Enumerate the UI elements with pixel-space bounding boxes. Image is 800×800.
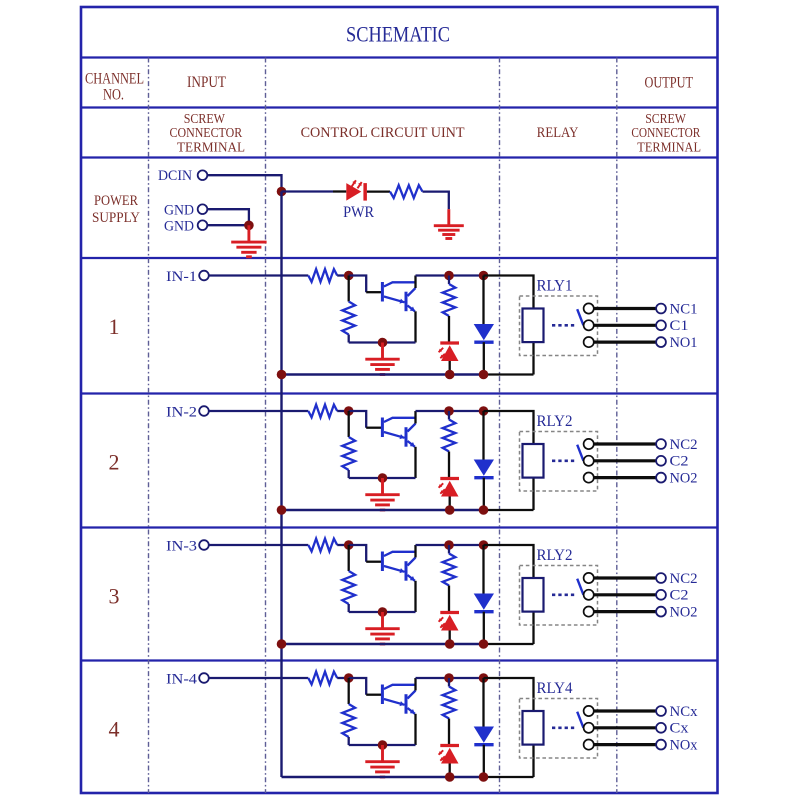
wire resistor to node [337, 410, 349, 412]
terminal GND 1 [198, 204, 208, 214]
table outer border [81, 7, 718, 793]
wire collector rail ch2 [416, 410, 484, 412]
coupling dotted line RLY1 [552, 324, 577, 327]
terminal NC2 [656, 439, 666, 449]
svg-text:OUTPUT: OUTPUT [645, 75, 694, 92]
terminal NCx [656, 706, 666, 716]
terminal Cx [656, 723, 666, 733]
svg-text:NC2: NC2 [670, 437, 698, 453]
node emitter ground ch4 [378, 740, 388, 750]
wire contact to terminal NO1 [594, 341, 657, 344]
svg-text:GND: GND [164, 218, 194, 234]
terminal NO2 [656, 607, 666, 617]
wire GND2 to junction [207, 224, 249, 226]
relay coil RLY2 [523, 578, 544, 612]
switch lever RLY2 [577, 445, 583, 461]
wire junction to LED PWR [282, 190, 334, 192]
svg-text:SCREW: SCREW [184, 111, 226, 126]
wire LED to bottom rail ch4 [449, 764, 451, 778]
wire IN-3 to resistor [209, 544, 308, 546]
node diode branch bottom ch1 [479, 370, 489, 380]
node base node ch1 [344, 271, 354, 281]
switch lever RLY2 [577, 579, 583, 595]
svg-text:Cx: Cx [670, 721, 690, 737]
wire contact to terminal NOx [594, 743, 657, 746]
resistor R4a (input series) [308, 672, 337, 685]
table row lines [81, 56, 718, 58]
svg-text:NO.: NO. [103, 87, 124, 104]
wire collector rail ch4 [416, 677, 484, 679]
wire contact to terminal NO2 [594, 610, 657, 613]
node base node ch4 [344, 673, 354, 683]
svg-text:SCHEMATIC: SCHEMATIC [346, 22, 450, 47]
wire IN-4 to resistor [209, 677, 308, 679]
wire collector stub ch2 [414, 411, 416, 424]
wire resistor to node [337, 274, 349, 276]
node emitter ground ch2 [378, 473, 388, 483]
wire emitter rail ch3 [349, 611, 416, 613]
wire contact to terminal C2 [594, 593, 657, 596]
svg-text:CONTROL CIRCUIT UINT: CONTROL CIRCUIT UINT [301, 125, 465, 141]
wire contact to terminal NC2 [594, 442, 657, 445]
node diode branch bottom ch4 [479, 772, 489, 782]
wire contact to terminal NC2 [594, 576, 657, 579]
node power rail tap ch1 [277, 370, 287, 380]
node LED branch top ch2 [444, 406, 454, 416]
wire rail to relay coil top ch3 [484, 545, 534, 578]
resistor R2b (base pulldown) [348, 411, 350, 437]
relay RLY2 dashed box [520, 566, 598, 626]
wire collector stub ch3 [414, 545, 416, 558]
wire DCIN to power rail [207, 175, 281, 191]
switch lever RLY4 [577, 712, 583, 728]
LED D2a indicator (red, pointing up) [440, 477, 459, 480]
resistor R3a (input series) [308, 539, 337, 552]
wire base drive ch2 [349, 411, 367, 428]
wire bottom power rail ch3 [282, 643, 484, 645]
terminal C2 [656, 590, 666, 600]
contact NO pin ch2 [584, 473, 594, 483]
wire emitter stub ch2 [414, 447, 416, 478]
wire bottom power rail ch2 [282, 509, 484, 511]
svg-text:INPUT: INPUT [187, 74, 226, 91]
relay RLY4 dashed box [520, 699, 598, 759]
wire contact to terminal NC1 [594, 307, 657, 310]
wire relay coil bottom to rail ch3 [532, 612, 534, 645]
LED D3a indicator (red, pointing up) [440, 611, 459, 614]
ground (channel 3) [365, 612, 399, 644]
wire base drive ch1 [349, 276, 367, 293]
contact NC pin ch1 [584, 303, 594, 313]
wire LED to bottom rail ch2 [449, 497, 451, 511]
diode D1b flyback (blue, pointing down) [482, 276, 484, 325]
resistor R2c (LED series, vertical) [448, 411, 450, 420]
resistor (power row, horizontal) [390, 185, 423, 198]
svg-text:TERMINAL: TERMINAL [177, 139, 245, 154]
terminal C2 [656, 456, 666, 466]
wire collector stub ch4 [414, 678, 416, 691]
wire contact to terminal Cx [594, 726, 657, 729]
svg-text:IN-4: IN-4 [166, 671, 198, 687]
terminal NO1 [656, 337, 666, 347]
contact NC pin ch3 [584, 573, 594, 583]
resistor R1a (input series) [308, 269, 337, 282]
wire emitter stub ch1 [414, 311, 416, 342]
contact C pin ch4 [584, 723, 594, 733]
diode D4b flyback (blue, pointing down) [482, 678, 484, 727]
contact NC pin ch2 [584, 439, 594, 449]
node diode branch top ch3 [479, 540, 489, 550]
ground (channel 1) [365, 343, 399, 375]
node power rail tap ch3 [277, 639, 287, 649]
wire contact to terminal NO2 [594, 476, 657, 479]
wire bottom power rail ch1 [282, 373, 484, 375]
node LED branch bottom ch1 [445, 370, 455, 380]
transistor Q4 (darlington pair) [382, 685, 415, 714]
contact NC pin ch4 [584, 706, 594, 716]
svg-text:RELAY: RELAY [537, 125, 579, 141]
wire GND1 to junction [207, 209, 249, 225]
node LED branch top ch1 [444, 271, 454, 281]
node LED branch top ch3 [444, 540, 454, 550]
relay coil RLY2 [523, 444, 544, 478]
LED PWR (red, pointing right) [346, 183, 361, 201]
svg-text:NO2: NO2 [670, 470, 698, 486]
resistor R1c (LED series, vertical) [448, 276, 450, 285]
contact C pin ch3 [584, 590, 594, 600]
wire base drive ch3 [349, 545, 367, 562]
svg-text:SCREW: SCREW [645, 111, 686, 126]
terminal IN-4 [199, 673, 209, 683]
svg-text:NC1: NC1 [670, 301, 698, 317]
diode D3b flyback (blue, pointing down) [482, 545, 484, 594]
svg-text:1: 1 [109, 314, 120, 339]
terminal IN-1 [199, 271, 209, 281]
ground (power LED return) [434, 209, 464, 238]
node power rail tap ch2 [277, 505, 287, 515]
wire LED to resistor [367, 190, 390, 192]
wire contact to terminal NCx [594, 709, 657, 712]
node LED branch top ch4 [444, 673, 454, 683]
wire resistor to node [337, 544, 349, 546]
LED D4a indicator (red, pointing up) [440, 744, 459, 747]
svg-text:RLY2: RLY2 [537, 547, 573, 564]
contact C pin ch1 [584, 320, 594, 330]
svg-text:NO2: NO2 [670, 604, 698, 620]
wire base drive ch4 [349, 678, 367, 695]
relay RLY1 dashed box [520, 296, 598, 356]
wire relay coil bottom to rail ch4 [532, 745, 534, 778]
resistor R3c (LED series, vertical) [448, 545, 450, 554]
svg-text:CONNECTOR: CONNECTOR [631, 125, 700, 140]
svg-text:C1: C1 [670, 318, 689, 334]
ground (channel 2) [365, 478, 399, 510]
resistor R2a (input series) [308, 405, 337, 418]
svg-text:3: 3 [109, 584, 120, 609]
node GND junction [244, 221, 254, 231]
svg-text:PWR: PWR [343, 204, 375, 221]
node diode branch top ch2 [479, 406, 489, 416]
terminal C1 [656, 320, 666, 330]
wire resistor to ground [423, 192, 449, 210]
wire rail to relay coil top ch1 [484, 276, 534, 309]
resistor R3b (base pulldown) [348, 545, 350, 571]
wire relay coil bottom to rail ch2 [532, 478, 534, 511]
svg-text:TERMINAL: TERMINAL [637, 139, 701, 154]
svg-text:IN-2: IN-2 [166, 404, 197, 420]
LED D1a indicator (red, pointing up) [440, 341, 459, 344]
wire LED to bottom rail ch1 [449, 361, 451, 375]
contact NO pin ch1 [584, 337, 594, 347]
terminal IN-2 [199, 406, 209, 416]
wire emitter stub ch3 [414, 581, 416, 612]
transistor Q2 (darlington pair) [382, 418, 415, 447]
resistor R4b (base pulldown) [348, 678, 350, 704]
wire emitter rail ch4 [349, 744, 416, 746]
svg-text:IN-1: IN-1 [166, 269, 197, 285]
wire IN-1 to resistor [209, 274, 308, 276]
terminal GND 2 [198, 220, 208, 230]
node base node ch2 [344, 406, 354, 416]
wire resistor to node [337, 677, 349, 679]
terminal NC2 [656, 573, 666, 583]
resistor R1b (base pulldown) [348, 276, 350, 302]
wire emitter stub ch4 [414, 714, 416, 745]
svg-text:C2: C2 [670, 588, 689, 604]
svg-text:2: 2 [109, 450, 120, 475]
node LED branch bottom ch3 [445, 639, 455, 649]
svg-text:IN-3: IN-3 [166, 538, 197, 554]
transistor Q1 (darlington pair) [382, 282, 415, 311]
node emitter ground ch3 [378, 607, 388, 617]
wire emitter rail ch2 [349, 477, 416, 479]
relay coil RLY4 [523, 711, 544, 745]
node diode branch bottom ch2 [479, 505, 489, 515]
svg-text:RLY4: RLY4 [537, 680, 573, 697]
svg-text:NC2: NC2 [670, 571, 698, 587]
wire collector rail ch3 [416, 544, 484, 546]
wire power rail (vertical DCIN bus) [280, 192, 282, 778]
node base node ch3 [344, 540, 354, 550]
wire LED to bottom rail ch3 [449, 631, 451, 645]
ground (channel 4) [365, 745, 399, 777]
contact NO pin ch4 [584, 740, 594, 750]
node LED branch bottom ch2 [445, 505, 455, 515]
terminal DCIN [198, 170, 208, 180]
wire rail to relay coil top ch4 [484, 678, 534, 711]
diode D2b flyback (blue, pointing down) [482, 411, 484, 460]
svg-text:CONNECTOR: CONNECTOR [170, 125, 243, 140]
transistor Q3 (darlington pair) [382, 552, 415, 581]
node power junction [277, 187, 287, 197]
svg-text:C2: C2 [670, 454, 689, 470]
svg-text:POWER: POWER [94, 193, 138, 209]
wire contact to terminal C2 [594, 459, 657, 462]
contact C pin ch2 [584, 456, 594, 466]
svg-text:4: 4 [109, 717, 120, 742]
svg-text:NO1: NO1 [670, 335, 698, 351]
relay coil RLY1 [523, 309, 544, 343]
ground (power supply GND) [231, 225, 266, 256]
wire contact to terminal C1 [594, 324, 657, 327]
svg-text:DCIN: DCIN [158, 168, 192, 184]
terminal NOx [656, 740, 666, 750]
node diode branch bottom ch3 [479, 639, 489, 649]
svg-text:SUPPLY: SUPPLY [92, 210, 140, 226]
resistor R4c (LED series, vertical) [448, 678, 450, 687]
wire relay coil bottom to rail ch1 [532, 342, 534, 375]
wire collector rail ch1 [416, 274, 484, 276]
wire bottom power rail ch4 [282, 776, 484, 778]
contact NO pin ch3 [584, 607, 594, 617]
wire rail to relay coil top ch2 [484, 411, 534, 444]
svg-text:CHANNEL: CHANNEL [85, 71, 144, 88]
node LED branch bottom ch4 [445, 772, 455, 782]
coupling dotted line RLY4 [552, 726, 577, 729]
coupling dotted line RLY2 [552, 459, 577, 462]
terminal NO2 [656, 473, 666, 483]
node diode branch top ch4 [479, 673, 489, 683]
terminal IN-3 [199, 540, 209, 550]
svg-text:RLY1: RLY1 [537, 278, 573, 295]
svg-text:NCx: NCx [670, 704, 698, 720]
svg-text:GND: GND [164, 202, 194, 218]
node diode branch top ch1 [479, 271, 489, 281]
relay RLY2 dashed box [520, 432, 598, 492]
table column dividers (dash-dot) [148, 58, 150, 794]
coupling dotted line RLY2 [552, 593, 577, 596]
wire collector stub ch1 [414, 276, 416, 289]
wire IN-2 to resistor [209, 410, 308, 412]
svg-text:RLY2: RLY2 [537, 413, 573, 430]
svg-text:NOx: NOx [670, 737, 698, 753]
switch lever RLY1 [577, 309, 583, 325]
terminal NC1 [656, 304, 666, 314]
wire emitter rail ch1 [349, 341, 416, 343]
node emitter ground ch1 [378, 338, 388, 348]
